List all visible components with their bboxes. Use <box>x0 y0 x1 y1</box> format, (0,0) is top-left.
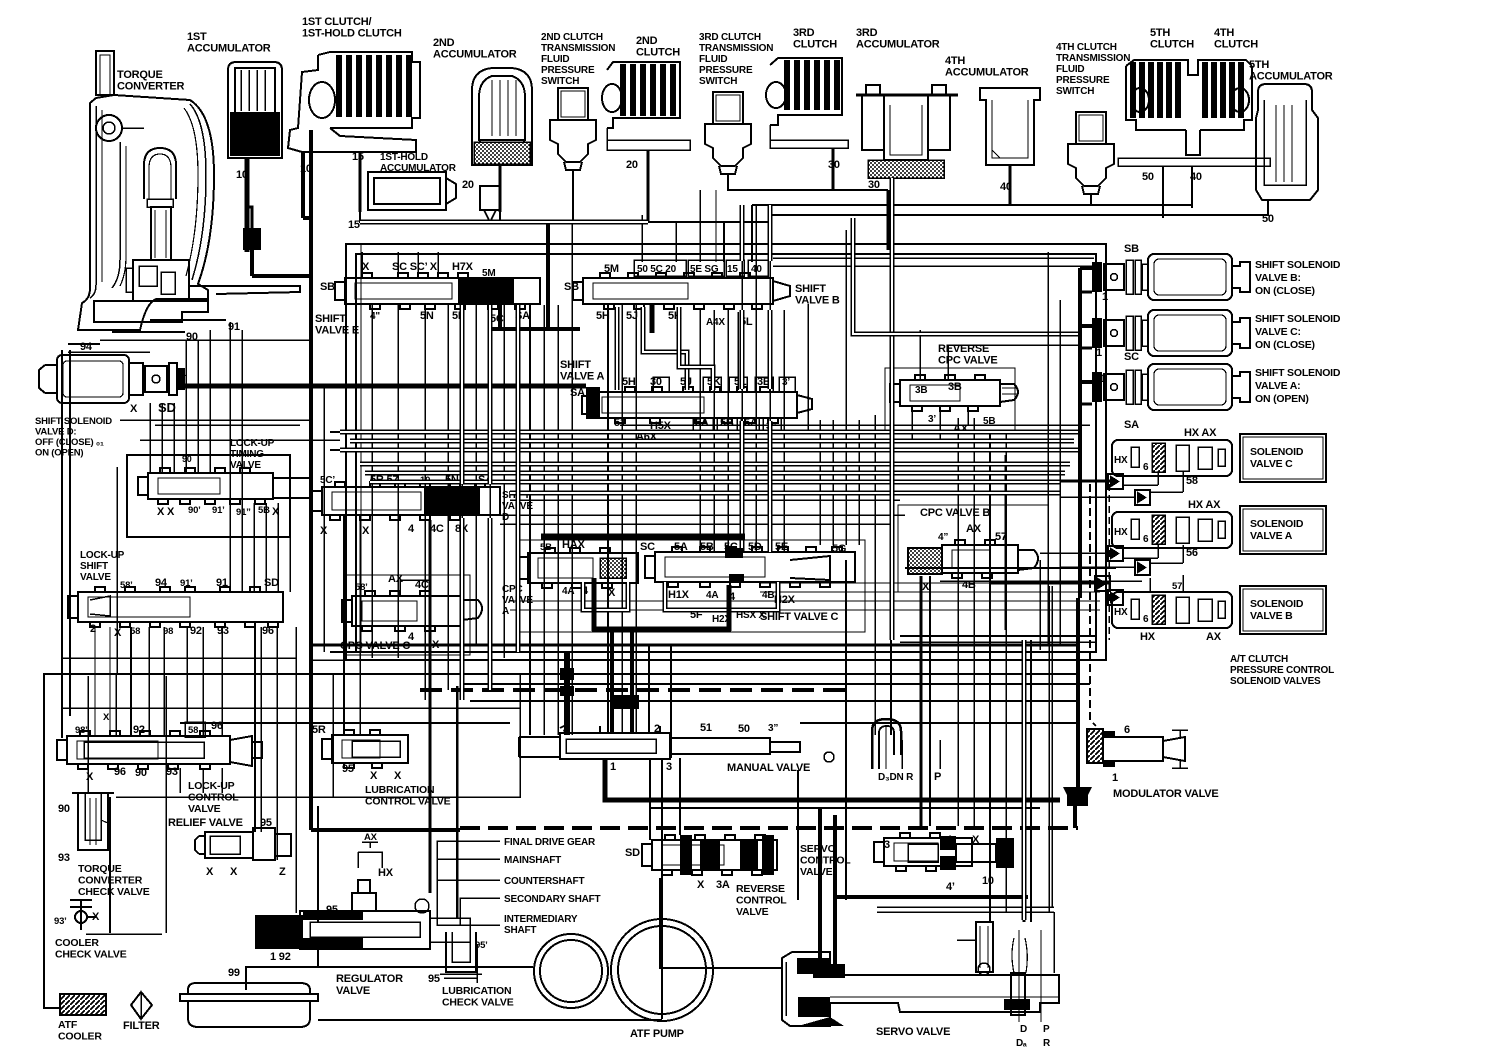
svg-text:SHIFT VALVE C: SHIFT VALVE C <box>760 611 839 623</box>
left long verticals <box>61 350 63 738</box>
svg-text:SC: SC <box>1124 351 1139 363</box>
svg-text:MAINSHAFT: MAINSHAFT <box>504 855 561 866</box>
pipe 10 from 1st accumulator <box>245 158 250 252</box>
svg-text:HX: HX <box>1140 631 1156 643</box>
svg-text:4C: 4C <box>415 579 429 591</box>
ATF cooler <box>60 994 106 1015</box>
svg-text:ON (CLOSE): ON (CLOSE) <box>1255 339 1315 351</box>
pipe 20 from 2nd clutch <box>647 150 650 222</box>
svg-text:3RD CLUTCH: 3RD CLUTCH <box>699 32 761 43</box>
strainer pipe 99 <box>246 967 533 990</box>
3rd clutch transmission fluid pressure switch <box>705 92 751 174</box>
svg-text:4A: 4A <box>706 590 718 601</box>
4th clutch transmission fluid pressure switch <box>1068 112 1114 194</box>
svg-text:1ST-HOLD CLUTCH: 1ST-HOLD CLUTCH <box>302 28 402 40</box>
svg-text:SHIFT SOLENOID: SHIFT SOLENOID <box>1255 367 1341 379</box>
svg-text:ATF PUMP: ATF PUMP <box>630 1028 684 1040</box>
pipe to servo bundle <box>1022 640 1027 920</box>
2nd accumulator <box>472 68 532 165</box>
relief valve <box>195 828 291 860</box>
svg-text:30: 30 <box>828 159 840 171</box>
svg-text:LUBRICATION: LUBRICATION <box>442 985 511 997</box>
reverse control valve <box>652 840 777 870</box>
pipe from 4th clutch pressure switch <box>1090 194 1092 205</box>
svg-text:X: X <box>92 911 100 923</box>
dashed pressure line <box>420 688 850 692</box>
svg-text:VALVE B: VALVE B <box>795 295 840 307</box>
svg-text:4”: 4” <box>938 532 948 543</box>
svg-text:3”: 3” <box>768 723 778 734</box>
regulator valve <box>300 880 470 949</box>
svg-text:A: A <box>502 606 509 617</box>
modulator valve <box>1087 729 1103 763</box>
wire 20 to shift valve B port <box>675 222 677 262</box>
svg-text:CONTROL: CONTROL <box>800 855 851 867</box>
svg-text:90: 90 <box>186 331 198 343</box>
svg-text:HX: HX <box>378 867 394 879</box>
svg-text:1: 1 <box>1102 291 1108 303</box>
svg-text:LOCK-UP: LOCK-UP <box>80 550 125 561</box>
shift valve B port boxes <box>634 260 686 276</box>
ATF strainer pan <box>188 983 310 994</box>
shift solenoid valve C body <box>1148 310 1250 356</box>
svg-text:3A: 3A <box>716 879 730 891</box>
lock-up timing valve box <box>127 455 290 537</box>
right frame inner verticals <box>1047 252 1049 645</box>
pipe 40 from 4th clutch <box>1191 166 1193 208</box>
svg-text:ACCUMULATOR: ACCUMULATOR <box>187 43 271 55</box>
torque converter <box>78 51 300 330</box>
svg-text:TORQUE: TORQUE <box>78 863 122 875</box>
check valve squares <box>1108 474 1123 489</box>
svg-text:H7X: H7X <box>452 261 474 273</box>
thick vertical regulator feed <box>429 520 432 893</box>
wire stubs above shift valve E <box>361 252 363 278</box>
manual valve detent <box>824 752 834 762</box>
svg-text:MODULATOR VALVE: MODULATOR VALVE <box>1113 788 1219 800</box>
svg-text:6: 6 <box>1143 534 1149 545</box>
svg-text:X: X <box>362 525 370 537</box>
pipe long verticals <box>460 305 465 484</box>
wire under solenoid D <box>120 419 311 421</box>
svg-text:VALVE B: VALVE B <box>1250 610 1293 622</box>
svg-text:SOLENOID: SOLENOID <box>1250 446 1304 458</box>
svg-text:5D: 5D <box>748 541 762 553</box>
servo valve D element <box>1011 973 1025 1015</box>
wire web verticals inside box mid <box>461 305 463 700</box>
svg-text:5A: 5A <box>674 541 688 553</box>
pipe bundle horizontals <box>340 430 1078 435</box>
lock-up control valve <box>67 736 230 764</box>
svg-text:1: 1 <box>610 761 616 773</box>
shift solenoid valve C connector <box>1092 318 1102 348</box>
svg-text:50 5C 20: 50 5C 20 <box>637 264 677 275</box>
svg-text:PRESSURE: PRESSURE <box>699 65 753 76</box>
reverse CPC valve <box>900 380 1000 406</box>
servo valve D P R leader lines <box>1018 930 1020 1022</box>
horizontal bundle y568-586 right <box>905 567 1116 569</box>
shift valve E <box>345 278 540 304</box>
svg-text:5B: 5B <box>720 417 734 429</box>
svg-text:CHECK VALVE: CHECK VALVE <box>442 997 514 1009</box>
svg-text:5H: 5H <box>622 376 636 388</box>
svg-text:SB: SB <box>1124 243 1139 255</box>
box around CPC valve A and shift valve C <box>520 540 865 632</box>
svg-text:20: 20 <box>462 179 474 191</box>
filter <box>131 992 152 1019</box>
black ports on shift valve C <box>725 548 743 558</box>
svg-text:57: 57 <box>1172 581 1182 592</box>
svg-text:5B: 5B <box>700 541 714 553</box>
short verticals below lock-up control valve <box>179 768 181 793</box>
svg-text:VALVE C: VALVE C <box>1250 458 1293 470</box>
wire to 5E SG ports <box>699 190 701 262</box>
reverse CPC valve wires <box>919 330 921 380</box>
svg-text:5M: 5M <box>482 268 496 279</box>
svg-text:94: 94 <box>80 341 93 353</box>
svg-text:A4X: A4X <box>706 317 725 328</box>
center vertical bundle <box>529 305 531 735</box>
svg-text:40: 40 <box>1190 171 1202 183</box>
svg-text:93: 93 <box>217 625 229 637</box>
wire from 2nd clutch bus to valve box <box>573 221 770 223</box>
pipe 50 from 5th clutch <box>1162 166 1164 218</box>
svg-text:FINAL DRIVE GEAR: FINAL DRIVE GEAR <box>504 837 596 848</box>
svg-text:FLUID: FLUID <box>541 54 569 65</box>
ATF pump <box>534 934 608 1008</box>
svg-text:3RD: 3RD <box>793 27 815 39</box>
label solenoid valve C <box>1240 434 1326 482</box>
svg-text:CLUTCH: CLUTCH <box>636 47 680 59</box>
svg-text:30: 30 <box>868 179 880 191</box>
svg-text:VALVE E: VALVE E <box>315 325 359 337</box>
svg-text:CHECK VALVE: CHECK VALVE <box>55 949 127 961</box>
svg-text:X: X <box>362 261 370 273</box>
svg-text:10: 10 <box>982 875 994 887</box>
svg-text:FLUID: FLUID <box>699 54 727 65</box>
solenoid valve C block <box>1112 440 1232 476</box>
wire 50 bus <box>770 214 1268 216</box>
svg-text:SC: SC <box>640 541 655 553</box>
svg-text:D: D <box>1020 1024 1027 1035</box>
svg-text:5E SG: 5E SG <box>690 264 719 275</box>
svg-text:A/T CLUTCH: A/T CLUTCH <box>1230 654 1288 665</box>
svg-text:93’: 93’ <box>54 916 67 927</box>
svg-text:90’: 90’ <box>188 505 201 516</box>
svg-text:HX AX: HX AX <box>1184 427 1217 439</box>
pipe 50 from 5th accumulator <box>1163 200 1268 215</box>
shift valve B <box>583 278 773 304</box>
svg-text:P: P <box>934 771 941 783</box>
svg-text:HAX: HAX <box>562 539 585 551</box>
1st accumulator <box>228 62 282 158</box>
svg-text:X: X <box>103 712 110 723</box>
svg-text:ACCUMULATOR: ACCUMULATOR <box>433 49 517 61</box>
svg-text:TRANSMISSION: TRANSMISSION <box>541 43 615 54</box>
check valve area box <box>87 676 89 793</box>
verticals from shift valve D to lubrication valve <box>343 516 345 735</box>
cooler box frame <box>44 674 1078 1008</box>
svg-text:96: 96 <box>114 766 126 778</box>
solenoid valve A block <box>1112 512 1232 548</box>
4th accumulator <box>980 88 1040 165</box>
svg-text:1: 1 <box>180 367 186 379</box>
AX HX stubs <box>358 842 382 868</box>
svg-text:SOLENOID VALVES: SOLENOID VALVES <box>1230 676 1321 687</box>
svg-text:30: 30 <box>650 376 662 388</box>
valve body inner frame <box>356 254 1096 652</box>
heavy line y800 <box>650 807 1040 809</box>
svg-text:3B: 3B <box>948 381 962 393</box>
svg-text:X: X <box>370 770 378 782</box>
svg-text:6: 6 <box>1124 724 1130 736</box>
svg-text:INTERMEDIARY: INTERMEDIARY <box>504 914 578 925</box>
svg-text:1 92: 1 92 <box>270 951 291 963</box>
pipe U under CPC valve A <box>583 582 628 610</box>
lock-up shift valve left port drops <box>94 627 96 737</box>
extra horizontals right-mid <box>760 582 1100 584</box>
svg-text:1ST CLUTCH/: 1ST CLUTCH/ <box>302 16 371 28</box>
svg-text:50: 50 <box>738 723 750 735</box>
svg-text:6: 6 <box>1143 614 1149 625</box>
5th clutch and 4th clutch pair <box>1118 60 1270 166</box>
servo valve <box>782 952 1059 1026</box>
svg-text:SERVO: SERVO <box>800 843 836 855</box>
svg-text:5A: 5A <box>695 417 709 429</box>
svg-text:SOLENOID: SOLENOID <box>1250 518 1304 530</box>
valve body outer frame <box>346 244 1106 660</box>
svg-text:4TH: 4TH <box>1214 27 1234 39</box>
label solenoid valve A <box>1240 506 1326 554</box>
svg-text:ON (CLOSE): ON (CLOSE) <box>1255 285 1315 297</box>
svg-text:ACCUMULATOR: ACCUMULATOR <box>1249 71 1333 83</box>
svg-text:CPC VALVE: CPC VALVE <box>938 355 998 367</box>
svg-text:X: X <box>206 866 214 878</box>
pipe 10 elbow to main vertical <box>303 216 311 220</box>
wire bus y700 <box>470 700 1078 702</box>
svg-text:5E: 5E <box>775 541 788 553</box>
svg-text:X: X <box>86 771 94 783</box>
solenoid valve B block <box>1112 592 1232 628</box>
svg-text:SWITCH: SWITCH <box>541 76 579 87</box>
pipe 10 elbow and fitting <box>247 207 252 252</box>
pipe 10 from 1st clutch <box>301 152 305 218</box>
svg-text:95: 95 <box>326 904 338 916</box>
pipe 40 from 4th accumulator <box>1009 165 1012 205</box>
lubrication control valve box <box>311 674 520 797</box>
svg-text:VALVE: VALVE <box>336 985 370 997</box>
svg-text:X: X <box>608 587 616 599</box>
svg-text:90: 90 <box>182 454 192 464</box>
shift solenoid valve A connector <box>1092 372 1102 402</box>
extra verticals right-mid <box>1004 455 1006 630</box>
svg-text:91”: 91” <box>236 507 251 518</box>
shift valve C <box>655 552 855 582</box>
svg-text:HX: HX <box>1114 455 1128 466</box>
svg-text:CONVERTER: CONVERTER <box>117 81 185 93</box>
svg-text:SHAFT: SHAFT <box>504 925 536 936</box>
svg-text:3’: 3’ <box>928 414 936 425</box>
svg-text:COOLER: COOLER <box>58 1031 102 1043</box>
svg-text:HX AX: HX AX <box>1188 499 1221 511</box>
svg-text:5B: 5B <box>258 505 270 516</box>
svg-text:VALVE: VALVE <box>230 460 261 471</box>
verticals shift valve C feed <box>699 310 701 552</box>
svg-text:AX: AX <box>1206 631 1222 643</box>
svg-text:6: 6 <box>1143 462 1149 473</box>
wire 15 to shift valve B <box>359 212 361 222</box>
svg-text:40: 40 <box>1000 181 1012 193</box>
svg-text:VALVE: VALVE <box>736 906 769 918</box>
svg-text:X X: X X <box>157 506 175 518</box>
thick vertical to modulator <box>1076 598 1080 787</box>
svg-text:SHIFT: SHIFT <box>795 283 826 295</box>
svg-text:4’: 4’ <box>946 881 955 893</box>
svg-text:SHIFT SOLENOID: SHIFT SOLENOID <box>35 416 112 427</box>
svg-text:ACCUMULATOR: ACCUMULATOR <box>856 39 940 51</box>
wire 90 from torque converter <box>112 331 185 333</box>
shift valve A <box>592 392 797 418</box>
svg-text:93: 93 <box>166 766 178 778</box>
svg-text:5TH: 5TH <box>1150 27 1170 39</box>
svg-text:VALVE A: VALVE A <box>1250 530 1293 542</box>
svg-text:CHECK VALVE: CHECK VALVE <box>78 886 150 898</box>
svg-text:98’: 98’ <box>75 725 88 736</box>
svg-text:2ND: 2ND <box>433 37 455 49</box>
svg-text:96: 96 <box>262 625 274 637</box>
svg-text:CONTROL: CONTROL <box>736 895 787 907</box>
svg-text:FLUID: FLUID <box>1056 64 1084 75</box>
thick vertical x311 <box>309 130 313 830</box>
svg-text:10: 10 <box>236 169 248 181</box>
check valve 20 under 1st-hold accumulator <box>480 186 500 222</box>
svg-text:94: 94 <box>155 577 168 589</box>
2nd clutch <box>602 62 690 150</box>
lines solenoid blocks to left <box>990 480 1112 483</box>
svg-text:SOLENOID: SOLENOID <box>1250 598 1304 610</box>
svg-text:Dₐ: Dₐ <box>1016 1038 1027 1049</box>
CPC valve A <box>528 553 638 583</box>
svg-text:ACCUMULATOR: ACCUMULATOR <box>380 163 457 174</box>
svg-text:51: 51 <box>700 722 712 734</box>
svg-text:FILTER: FILTER <box>123 1020 160 1032</box>
svg-text:5R: 5R <box>312 724 326 736</box>
verticals right bottom <box>797 770 799 900</box>
servo valve piston blobs <box>797 958 829 974</box>
svg-text:15: 15 <box>727 264 738 275</box>
svg-text:SWITCH: SWITCH <box>1056 86 1094 97</box>
dash-dot line to modulator 6 port <box>1090 484 1096 726</box>
box around reverse CPC valve <box>885 368 1015 432</box>
wire 94 stub <box>68 343 100 345</box>
3rd clutch <box>766 58 848 148</box>
svg-text:SD: SD <box>625 847 640 859</box>
svg-text:93: 93 <box>58 852 70 864</box>
pipe from 3rd clutch pressure switch <box>728 174 888 190</box>
svg-text:58’: 58’ <box>120 580 133 591</box>
svg-text:X: X <box>114 627 122 639</box>
manual valve <box>519 724 800 759</box>
svg-text:5M: 5M <box>604 263 619 275</box>
shift valve D <box>322 487 500 515</box>
pipe top bus 222 <box>360 220 648 225</box>
svg-text:SECONDARY SHAFT: SECONDARY SHAFT <box>504 894 601 905</box>
pipe 20 from 2nd accumulator <box>499 165 502 212</box>
verticals between shift valve A and CPC valve B <box>819 420 821 545</box>
wire verticals under shift valve E <box>371 304 373 658</box>
svg-text:VALVE A: VALVE A <box>560 371 604 383</box>
left lockup area horizontals <box>100 339 311 341</box>
servo control valve <box>884 838 972 866</box>
3rd accumulator <box>856 85 958 160</box>
svg-text:TORQUE: TORQUE <box>117 69 163 81</box>
svg-text:D₃DN R: D₃DN R <box>878 772 914 783</box>
svg-text:4C: 4C <box>430 523 444 535</box>
1st clutch / 1st-hold clutch <box>288 52 420 152</box>
svg-text:ACCUMULATOR: ACCUMULATOR <box>945 67 1029 79</box>
svg-text:TRANSMISSION: TRANSMISSION <box>1056 53 1130 64</box>
svg-text:1: 1 <box>1112 772 1118 784</box>
svg-text:HX: HX <box>1114 607 1128 618</box>
svg-text:Z: Z <box>279 866 286 878</box>
lubrication check valve <box>440 932 482 978</box>
svg-text:VALVE: VALVE <box>800 866 833 878</box>
pipe staircase 5K B to A <box>679 307 713 390</box>
svg-text:2ND CLUTCH: 2ND CLUTCH <box>541 32 603 43</box>
wire 50 to shift valve B port <box>641 215 643 262</box>
svg-text:5G: 5G <box>832 543 846 555</box>
svg-text:COOLER: COOLER <box>55 937 99 949</box>
svg-text:58: 58 <box>188 725 198 736</box>
svg-text:COUNTERSHAFT: COUNTERSHAFT <box>504 876 584 887</box>
svg-text:15: 15 <box>348 219 360 231</box>
extra bus horizontals <box>620 424 1090 426</box>
svg-text:SHIFT: SHIFT <box>560 359 591 371</box>
svg-text:CPC VALVE B: CPC VALVE B <box>920 507 990 519</box>
wire 20 bus <box>360 210 490 222</box>
svg-text:92: 92 <box>190 625 202 637</box>
wire SD output (1) <box>185 384 586 389</box>
wire bus below valve box <box>311 644 1080 647</box>
svg-text:REVERSE: REVERSE <box>736 883 785 895</box>
manual valve 3 drop to pump <box>661 758 663 1019</box>
pipe A4X drop <box>738 312 743 390</box>
svg-text:4TH CLUTCH: 4TH CLUTCH <box>1056 42 1117 53</box>
svg-text:90: 90 <box>135 767 147 779</box>
svg-text:SERVO VALVE: SERVO VALVE <box>876 1026 950 1038</box>
5th accumulator <box>1256 84 1318 200</box>
svg-text:PRESSURE CONTROL: PRESSURE CONTROL <box>1230 665 1334 676</box>
svg-text:PRESSURE: PRESSURE <box>1056 75 1110 86</box>
wire bus y723 <box>180 722 510 724</box>
svg-text:SA: SA <box>1124 419 1139 431</box>
junction block <box>611 695 639 709</box>
svg-text:1: 1 <box>1096 347 1102 359</box>
shift solenoid valve B body <box>1148 254 1250 300</box>
box around relief valve group <box>332 674 334 797</box>
verticals lockup area <box>130 627 132 736</box>
svg-text:LUBRICATION: LUBRICATION <box>365 784 434 796</box>
CPC valve C <box>352 596 462 626</box>
svg-text:PRESSURE: PRESSURE <box>541 65 595 76</box>
svg-text:95: 95 <box>342 763 354 775</box>
svg-text:LOCK-UP: LOCK-UP <box>188 780 235 792</box>
svg-text:92: 92 <box>133 724 145 736</box>
svg-text:91’: 91’ <box>180 578 193 589</box>
svg-text:CLUTCH: CLUTCH <box>1150 39 1194 51</box>
pipe 3rd accumulator down <box>890 178 895 640</box>
svg-text:X: X <box>394 770 402 782</box>
